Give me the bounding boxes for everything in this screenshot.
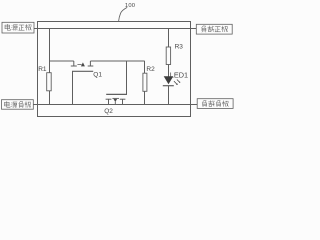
svg-text:R1: R1 (38, 66, 47, 73)
svg-text:R2: R2 (146, 66, 155, 73)
svg-text:Q1: Q1 (93, 72, 102, 79)
svg-text:Q2: Q2 (104, 108, 113, 115)
svg-text:LED1: LED1 (170, 71, 188, 80)
svg-text:R3: R3 (175, 43, 184, 50)
